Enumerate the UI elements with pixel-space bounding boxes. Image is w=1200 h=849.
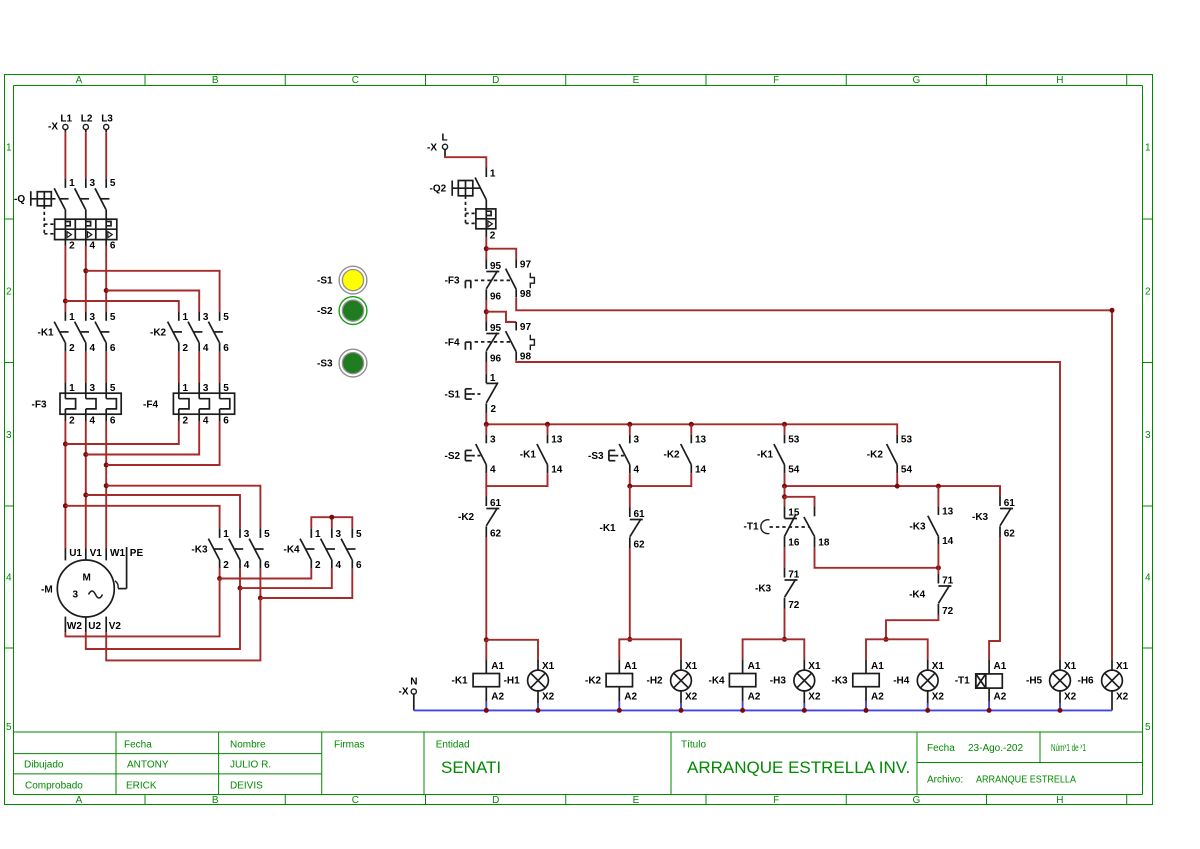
lamp -H3 <box>794 659 821 710</box>
junction neutral <box>925 708 930 713</box>
svg-text:5: 5 <box>6 722 12 733</box>
svg-text:1: 1 <box>6 142 12 153</box>
svg-text:-S2: -S2 <box>445 451 461 462</box>
pilot light -S1 <box>317 266 367 294</box>
lamp -H6 <box>1078 659 1129 710</box>
junction L1 branch <box>63 299 68 304</box>
wire -K2 2 to -F4 1 <box>178 352 180 383</box>
svg-text:L3: L3 <box>101 114 113 125</box>
wire -K2 6 to -F4 5 <box>219 352 221 383</box>
svg-text:2: 2 <box>1145 286 1151 297</box>
svg-text:96: 96 <box>490 292 502 303</box>
svg-text:L: L <box>442 133 448 144</box>
wire -F4 2 tie to L1 column <box>65 421 178 444</box>
svg-text:14: 14 <box>695 465 707 476</box>
svg-text:13: 13 <box>695 435 707 446</box>
wire -S1 to bus <box>485 413 487 424</box>
circuit breaker -Q2 <box>430 168 496 242</box>
junction bus at K1-53 <box>782 422 787 427</box>
label -X neutral <box>399 686 409 697</box>
wire -K2 4 to -F4 3 <box>198 352 200 383</box>
svg-text:23-Ago.-202: 23-Ago.-202 <box>968 743 1023 754</box>
svg-text:5: 5 <box>264 529 270 540</box>
junction neutral <box>617 708 622 713</box>
wire rail corner drop to K3 61 <box>999 486 1001 496</box>
timer contact -T1 15-16 timed NC <box>785 497 800 549</box>
svg-text:A2: A2 <box>994 692 1007 703</box>
svg-text:Archivo:: Archivo: <box>927 775 963 786</box>
title block texts <box>24 740 1086 792</box>
svg-text:62: 62 <box>490 529 502 540</box>
svg-text:A2: A2 <box>748 692 761 703</box>
wire S2 K1 join <box>486 473 547 486</box>
svg-text:4: 4 <box>90 416 96 427</box>
wire -F3 98 to lamp -H6 <box>516 298 1112 659</box>
junction L2 to K3 branch <box>83 493 88 498</box>
wire K1-62 down to K2 coil node <box>629 548 631 639</box>
svg-text:-K1: -K1 <box>600 523 617 534</box>
auxiliary contact -K1 53-54 <box>757 435 800 476</box>
svg-text:A2: A2 <box>491 692 504 703</box>
svg-text:2: 2 <box>69 241 75 252</box>
svg-text:X1: X1 <box>932 661 945 672</box>
wire -F4 4 tie to L2 column <box>86 421 199 455</box>
overload contact -F4 97-98 NO <box>506 322 532 363</box>
svg-text:-K1: -K1 <box>757 450 774 461</box>
svg-text:61: 61 <box>1004 498 1016 509</box>
svg-text:-S1: -S1 <box>445 389 461 400</box>
wire -K1 4 to -F3 3 <box>85 352 87 383</box>
svg-text:5: 5 <box>356 529 362 540</box>
svg-text:62: 62 <box>1004 529 1016 540</box>
svg-text:3: 3 <box>336 529 342 540</box>
wire K3-62 down to T1 coil <box>989 537 1000 659</box>
junction neutral <box>484 708 489 713</box>
svg-text:A2: A2 <box>871 692 884 703</box>
timer coil -T1 <box>955 659 1007 710</box>
wire T1-18 down and right <box>815 547 939 567</box>
junction K3-K4 pole1 <box>217 576 222 581</box>
thermal linkage -F4 <box>445 337 511 350</box>
svg-text:5: 5 <box>110 383 116 394</box>
svg-text:2: 2 <box>6 286 12 297</box>
contactor coil -K3 <box>853 659 884 710</box>
svg-text:4: 4 <box>203 343 209 354</box>
svg-text:5: 5 <box>1145 722 1151 733</box>
svg-text:A1: A1 <box>491 661 504 672</box>
svg-text:-K1: -K1 <box>520 450 537 461</box>
contactor coil -K2 <box>606 659 637 710</box>
svg-text:-K3: -K3 <box>909 521 926 532</box>
svg-text:3: 3 <box>634 435 640 446</box>
svg-text:6: 6 <box>264 560 270 571</box>
wire bus drop <box>784 424 786 435</box>
wire to K2 coil and H2 lamp <box>619 639 681 659</box>
svg-text:54: 54 <box>788 465 800 476</box>
svg-text:-M: -M <box>41 585 53 596</box>
terminal L3 <box>101 114 113 125</box>
svg-text:F: F <box>773 795 779 806</box>
svg-text:Comprobado: Comprobado <box>25 780 83 791</box>
svg-text:B: B <box>212 75 219 86</box>
svg-text:ARRANQUE ESTRELLA: ARRANQUE ESTRELLA <box>976 775 1076 786</box>
junction L3 to K3 branch <box>104 483 109 488</box>
svg-text:71: 71 <box>788 569 800 580</box>
junction neutral <box>536 708 541 713</box>
junction bus at S2 <box>484 422 489 427</box>
svg-text:H: H <box>1056 795 1063 806</box>
svg-text:2: 2 <box>69 416 75 427</box>
contactor coil -K4 <box>729 659 760 710</box>
svg-text:-S3: -S3 <box>588 451 604 462</box>
timer actuator -T1 <box>744 520 809 534</box>
svg-text:-K3: -K3 <box>832 676 849 687</box>
neutral wire N <box>414 694 1112 711</box>
svg-text:E: E <box>633 795 640 806</box>
svg-text:72: 72 <box>942 606 954 617</box>
svg-text:W1: W1 <box>110 548 125 559</box>
junction neutral <box>987 708 992 713</box>
svg-text:5: 5 <box>110 312 116 323</box>
lamp -H5 <box>1050 659 1077 710</box>
wire star bridge feeding -K4 1 3 5 <box>311 517 352 528</box>
svg-text:1: 1 <box>223 529 229 540</box>
svg-text:2: 2 <box>315 560 321 571</box>
svg-text:A1: A1 <box>624 661 637 672</box>
junction K2 coil node <box>627 637 632 642</box>
svg-text:15: 15 <box>788 508 800 519</box>
wire star bridge to -K4 pin 3 <box>331 517 333 528</box>
svg-text:2: 2 <box>183 416 189 427</box>
terminal circle N <box>411 689 416 694</box>
junction S3 join <box>627 484 632 489</box>
svg-text:14: 14 <box>942 536 954 547</box>
svg-text:1: 1 <box>1145 142 1151 153</box>
wire S3 K2 join <box>630 473 692 486</box>
svg-text:6: 6 <box>110 343 116 354</box>
svg-text:-K4: -K4 <box>909 590 926 601</box>
svg-text:61: 61 <box>490 498 502 509</box>
terminal L control <box>442 133 448 144</box>
svg-text:2: 2 <box>491 404 497 415</box>
svg-text:A1: A1 <box>871 661 884 672</box>
svg-text:-S3: -S3 <box>317 359 333 370</box>
wire rail drop to T1 contact <box>784 486 786 497</box>
title block grid <box>14 732 1143 795</box>
svg-text:G: G <box>913 75 921 86</box>
wire S2 branch down <box>485 486 487 496</box>
wire T1-16 down <box>784 547 786 568</box>
wire branch to -F3 97 <box>486 249 516 260</box>
wire L3 column to -K3 pin 5 <box>106 486 260 529</box>
frame row numbers <box>6 142 1151 733</box>
svg-text:98: 98 <box>520 352 532 363</box>
motor -M <box>41 548 125 632</box>
interlock contact -K1 61-62 NC <box>600 508 646 551</box>
svg-text:X1: X1 <box>1116 661 1129 672</box>
overload contact -F3 97-98 NO <box>506 259 532 300</box>
svg-text:A1: A1 <box>748 661 761 672</box>
svg-text:6: 6 <box>110 241 116 252</box>
svg-text:3: 3 <box>203 312 209 323</box>
wire S3 branch down <box>629 486 631 507</box>
thermal overload relay -F3 <box>32 382 122 426</box>
junction neutral <box>740 708 745 713</box>
wire -F4 96 to -S1 <box>485 362 487 374</box>
start pushbutton -S2 NO <box>476 435 496 476</box>
svg-text:95: 95 <box>490 323 502 334</box>
lamp -H2 <box>671 659 698 710</box>
svg-text:-H3: -H3 <box>770 676 787 687</box>
svg-text:JULIO R.: JULIO R. <box>230 760 271 771</box>
svg-text:X2: X2 <box>1064 692 1077 703</box>
contactor coil -K1 <box>473 659 504 710</box>
contactor -K4 main contacts <box>284 528 363 571</box>
svg-text:3: 3 <box>203 383 209 394</box>
svg-text:1: 1 <box>69 178 75 189</box>
svg-text:6: 6 <box>223 416 229 427</box>
svg-text:X2: X2 <box>932 692 945 703</box>
svg-text:-K1: -K1 <box>38 328 55 339</box>
interlock contact -K4 71-72 NC <box>909 574 954 617</box>
terminal circle L3 <box>104 124 109 129</box>
interlock contact -K3 71-72 NC <box>755 568 800 611</box>
stop pushbutton -S1 NC <box>445 373 498 415</box>
svg-text:3: 3 <box>6 430 12 441</box>
wire L1 column to -K3 pin 1 <box>65 506 219 529</box>
svg-text:1: 1 <box>69 383 75 394</box>
svg-text:-K2: -K2 <box>458 512 475 523</box>
svg-text:2: 2 <box>223 560 229 571</box>
svg-text:53: 53 <box>788 435 800 446</box>
svg-text:-K2: -K2 <box>585 676 602 687</box>
svg-text:6: 6 <box>356 560 362 571</box>
svg-text:4: 4 <box>203 416 209 427</box>
svg-text:5: 5 <box>110 178 116 189</box>
svg-text:-T1: -T1 <box>955 676 970 687</box>
wire K3 pole2 to motor U2 loop <box>86 588 240 649</box>
thermal element symbol F4 <box>530 335 534 350</box>
svg-text:-F4: -F4 <box>445 337 460 348</box>
svg-text:Título: Título <box>681 740 706 751</box>
auxiliary contact -K2 53-54 <box>867 435 913 476</box>
wire -F3 2 down to motor U1 <box>64 421 66 549</box>
overload contact -F3 95-96 NC <box>486 260 501 303</box>
junction T1 15-18 branch <box>782 494 787 499</box>
wire -F4 6 tie to L3 column <box>106 421 219 465</box>
svg-text:96: 96 <box>490 354 502 365</box>
timer contact -T1 15-18 timed NO <box>804 506 830 549</box>
svg-text:U1: U1 <box>69 548 82 559</box>
svg-text:-F3: -F3 <box>445 275 460 286</box>
svg-text:L1: L1 <box>60 114 72 125</box>
wire -F3 96 to -F4 95 <box>485 300 487 322</box>
wire -F3 6 down to motor W1 <box>105 421 107 549</box>
svg-text:-H5: -H5 <box>1026 676 1043 687</box>
svg-text:2: 2 <box>69 343 75 354</box>
svg-text:-X: -X <box>399 686 409 697</box>
svg-text:-S2: -S2 <box>317 306 333 317</box>
svg-text:3: 3 <box>73 590 79 601</box>
junction F4 pole3 tie <box>104 463 109 468</box>
svg-text:4: 4 <box>634 465 640 476</box>
svg-text:14: 14 <box>551 465 563 476</box>
wire K3 pole1 to motor W2 loop <box>65 579 219 637</box>
junction K3-K4 pole3 <box>258 596 263 601</box>
lamp -H4 <box>917 659 944 710</box>
wire L2 branch to -K2 pin 5 <box>86 271 220 312</box>
svg-text:U2: U2 <box>88 621 101 632</box>
junction F4 pole2 tie <box>83 452 88 457</box>
wire K4-72 to K3 coil node <box>886 615 938 640</box>
wire -F4 98 to lamp -H5 <box>516 360 1060 659</box>
svg-text:1: 1 <box>69 312 75 323</box>
wire rail drop to K3 13 <box>937 486 939 507</box>
wire bus drop <box>690 424 692 435</box>
auxiliary contact -K1 13-14 <box>520 435 563 476</box>
svg-text:13: 13 <box>551 435 563 446</box>
wire -Q out L3 down to -K1 pin 5 <box>105 246 107 312</box>
svg-text:-Q: -Q <box>14 194 25 205</box>
svg-text:DEIVIS: DEIVIS <box>230 780 263 791</box>
svg-text:-K2: -K2 <box>150 328 167 339</box>
svg-text:X2: X2 <box>808 692 821 703</box>
terminal circle L2 <box>83 124 88 129</box>
wire L3 to -Q <box>105 130 107 179</box>
pilot light -S3 <box>317 349 367 377</box>
terminal L2 <box>81 114 93 125</box>
wire -K1 2 to -F3 1 <box>64 352 66 383</box>
junction K3-14 T1-18 <box>936 565 941 570</box>
circuit breaker -Q <box>14 178 117 251</box>
label -X supply terminals <box>48 122 58 133</box>
junction neutral <box>864 708 869 713</box>
svg-text:1: 1 <box>183 312 189 323</box>
wire -Q out L1 down to -K1 pin 1 <box>64 246 66 312</box>
svg-text:ARRANQUE ESTRELLA INV.: ARRANQUE ESTRELLA INV. <box>687 758 910 777</box>
wire control bus <box>486 424 897 435</box>
svg-text:4: 4 <box>1145 573 1151 584</box>
wire L2 column to -K3 pin 3 <box>86 495 240 528</box>
terminal L1 <box>60 114 72 125</box>
svg-text:-H2: -H2 <box>647 676 664 687</box>
svg-text:Entidad: Entidad <box>436 740 470 751</box>
svg-text:-K3: -K3 <box>755 584 772 595</box>
interlock contact -K3 61-62 NC <box>972 497 1015 540</box>
junction rail at K2-54 <box>895 484 900 489</box>
svg-text:18: 18 <box>818 538 830 549</box>
svg-text:X1: X1 <box>808 661 821 672</box>
contactor -K3 main contacts <box>191 528 270 571</box>
wire -K1 6 to -F3 5 <box>105 352 107 383</box>
svg-text:H: H <box>1056 75 1063 86</box>
junction K1 coil node <box>484 637 489 642</box>
svg-text:98: 98 <box>520 289 532 300</box>
svg-text:V1: V1 <box>90 548 103 559</box>
label -X control terminal <box>427 142 437 153</box>
svg-text:1: 1 <box>315 529 321 540</box>
wire L2 to -Q <box>85 130 87 179</box>
svg-text:-F4: -F4 <box>143 399 158 410</box>
wire K3-14 down <box>937 545 939 568</box>
svg-text:A: A <box>76 795 83 806</box>
wire branch to -F4 97 <box>486 312 516 322</box>
svg-text:-X: -X <box>427 142 437 153</box>
svg-text:-K4: -K4 <box>284 545 301 556</box>
svg-text:V2: V2 <box>109 621 122 632</box>
wire -F3 4 down to motor V1 <box>85 421 87 549</box>
svg-text:B: B <box>212 795 219 806</box>
junction rail at K3-13 <box>936 484 941 489</box>
junction L3 branch <box>104 288 109 293</box>
svg-text:4: 4 <box>6 573 12 584</box>
auxiliary contact -K3 13-14 <box>909 506 953 547</box>
wire bus drop <box>547 424 549 435</box>
wire -Q out L2 down to -K1 pin 3 <box>85 246 87 312</box>
svg-text:X2: X2 <box>542 692 555 703</box>
svg-text:61: 61 <box>634 509 646 520</box>
overload contact -F4 95-96 NC <box>486 322 501 365</box>
wire L3 branch to -K2 pin 3 <box>106 291 199 312</box>
thermal overload relay -F4 <box>143 382 235 426</box>
svg-text:3: 3 <box>90 312 96 323</box>
svg-text:X1: X1 <box>542 661 555 672</box>
svg-text:-T1: -T1 <box>744 522 759 533</box>
wire K3-72 down to K4 coil node <box>784 609 786 640</box>
wire bus drop <box>485 424 487 435</box>
wire bus drop <box>629 424 631 435</box>
terminal circle L1 <box>63 124 68 129</box>
svg-text:C: C <box>352 75 359 86</box>
wire to K3 coil and H4 lamp <box>866 639 928 659</box>
svg-text:C: C <box>352 795 359 806</box>
svg-text:4: 4 <box>90 343 96 354</box>
svg-text:6: 6 <box>223 343 229 354</box>
junction neutral <box>679 708 684 713</box>
svg-text:A1: A1 <box>994 661 1007 672</box>
svg-text:95: 95 <box>490 261 502 272</box>
svg-text:Dibujado: Dibujado <box>24 760 64 771</box>
svg-text:1: 1 <box>183 383 189 394</box>
svg-text:-X: -X <box>48 122 58 133</box>
contactor -K1 main contacts <box>38 311 116 354</box>
junction H6 feed corner <box>1110 308 1115 313</box>
svg-text:Firmas: Firmas <box>334 740 365 751</box>
terminal circle L <box>442 144 447 149</box>
svg-text:-F3: -F3 <box>32 399 47 410</box>
svg-text:-K4: -K4 <box>709 676 726 687</box>
interlock contact -K2 61-62 NC <box>458 497 502 540</box>
junction bus at K1-13 <box>545 422 550 427</box>
svg-text:-H6: -H6 <box>1078 676 1095 687</box>
svg-text:Nombre: Nombre <box>230 740 266 751</box>
svg-text:X2: X2 <box>685 692 698 703</box>
junction star bridge <box>329 515 334 520</box>
svg-text:A: A <box>76 75 83 86</box>
svg-text:N: N <box>410 676 417 687</box>
svg-text:3: 3 <box>90 383 96 394</box>
junction L2 branch <box>83 268 88 273</box>
svg-text:2: 2 <box>183 343 189 354</box>
wire -K3 4 down and across to -K4 4 <box>239 569 241 588</box>
svg-text:W2: W2 <box>67 621 82 632</box>
terminal N <box>410 676 417 687</box>
svg-text:3: 3 <box>490 435 496 446</box>
svg-text:54: 54 <box>901 465 913 476</box>
svg-text:-H4: -H4 <box>893 676 910 687</box>
contactor -K2 main contacts <box>150 311 229 354</box>
lamp -H1 <box>528 659 555 710</box>
